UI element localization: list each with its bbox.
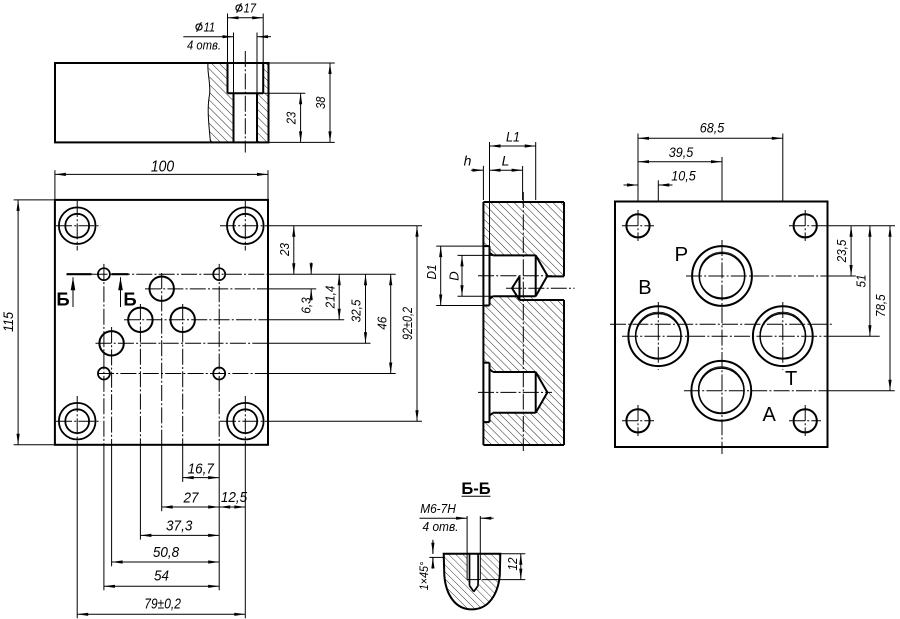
svg-text:11: 11 (204, 20, 216, 34)
svg-text:39,5: 39,5 (669, 144, 694, 160)
svg-text:T: T (785, 368, 797, 390)
svg-text:B: B (638, 277, 651, 299)
svg-text:6,3: 6,3 (299, 297, 314, 314)
svg-text:Б: Б (123, 289, 136, 310)
svg-text:L1: L1 (506, 129, 520, 145)
svg-text:D: D (447, 271, 462, 280)
svg-text:54: 54 (154, 568, 169, 585)
svg-text:12,5: 12,5 (221, 489, 248, 506)
svg-text:78,5: 78,5 (873, 294, 888, 317)
svg-text:Б-Б: Б-Б (461, 480, 490, 498)
svg-text:79±0,2: 79±0,2 (144, 596, 181, 613)
svg-text:115: 115 (0, 312, 16, 332)
svg-text:27: 27 (183, 489, 199, 506)
svg-text:68,5: 68,5 (700, 119, 725, 135)
svg-text:L: L (502, 153, 510, 169)
svg-text:10,5: 10,5 (671, 167, 696, 183)
svg-text:12: 12 (505, 557, 520, 571)
svg-text:51: 51 (853, 275, 868, 288)
svg-text:50,8: 50,8 (153, 544, 180, 561)
svg-text:23: 23 (285, 112, 299, 125)
svg-text:92±0,2: 92±0,2 (400, 307, 415, 340)
svg-text:100: 100 (151, 158, 175, 175)
svg-text:4 отв.: 4 отв. (423, 519, 459, 534)
svg-text:D1: D1 (424, 265, 439, 280)
svg-text:17: 17 (244, 1, 257, 15)
svg-text:23,5: 23,5 (834, 239, 849, 263)
svg-text:46: 46 (375, 316, 390, 330)
svg-text:37,3: 37,3 (166, 518, 193, 535)
svg-text:21,4: 21,4 (323, 286, 338, 310)
svg-text:4 отв.: 4 отв. (187, 38, 221, 52)
svg-text:Б: Б (56, 289, 69, 310)
svg-text:16,7: 16,7 (188, 460, 215, 477)
svg-text:38: 38 (314, 96, 328, 109)
svg-text:23: 23 (277, 242, 292, 257)
svg-text:1×45°: 1×45° (417, 562, 431, 591)
svg-text:32,5: 32,5 (349, 299, 364, 322)
svg-text:P: P (674, 243, 688, 266)
svg-text:h: h (464, 153, 472, 169)
svg-text:A: A (763, 404, 777, 426)
svg-text:М6-7Н: М6-7Н (420, 501, 456, 516)
